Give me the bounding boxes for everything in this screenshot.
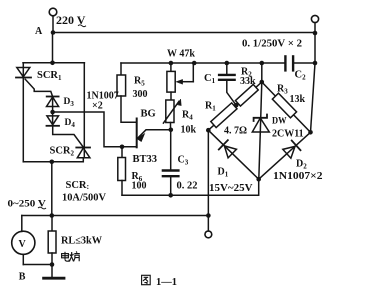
- svg-text:W 47k: W 47k: [167, 49, 195, 60]
- svg-text:A: A: [35, 26, 43, 37]
- svg-text:33k: 33k: [240, 76, 256, 87]
- svg-text:V: V: [19, 239, 27, 250]
- svg-text:4. 7Ω: 4. 7Ω: [224, 126, 247, 137]
- svg-text:13k: 13k: [290, 94, 306, 105]
- svg-text:SCR:: SCR:: [66, 180, 90, 191]
- svg-text:10A/500V: 10A/500V: [62, 193, 107, 204]
- svg-text:100: 100: [132, 181, 147, 192]
- svg-text:15V~25V: 15V~25V: [209, 183, 253, 194]
- svg-text:0~250 V: 0~250 V: [8, 199, 46, 210]
- svg-text:10k: 10k: [181, 125, 197, 136]
- svg-text:BT33: BT33: [133, 154, 158, 165]
- svg-text:0. 22: 0. 22: [177, 181, 198, 192]
- svg-text:BG: BG: [141, 109, 156, 120]
- svg-text:0. 1/250V × 2: 0. 1/250V × 2: [242, 39, 302, 50]
- svg-text:1—1: 1—1: [156, 277, 177, 288]
- svg-text:2CW11: 2CW11: [272, 129, 304, 140]
- svg-text:×2: ×2: [92, 101, 103, 112]
- svg-text:1N1007×2: 1N1007×2: [273, 171, 323, 182]
- svg-text:300: 300: [133, 89, 148, 100]
- svg-text:DW: DW: [272, 116, 287, 126]
- svg-text:RL≤3kW: RL≤3kW: [61, 236, 103, 247]
- svg-text:B: B: [19, 272, 26, 283]
